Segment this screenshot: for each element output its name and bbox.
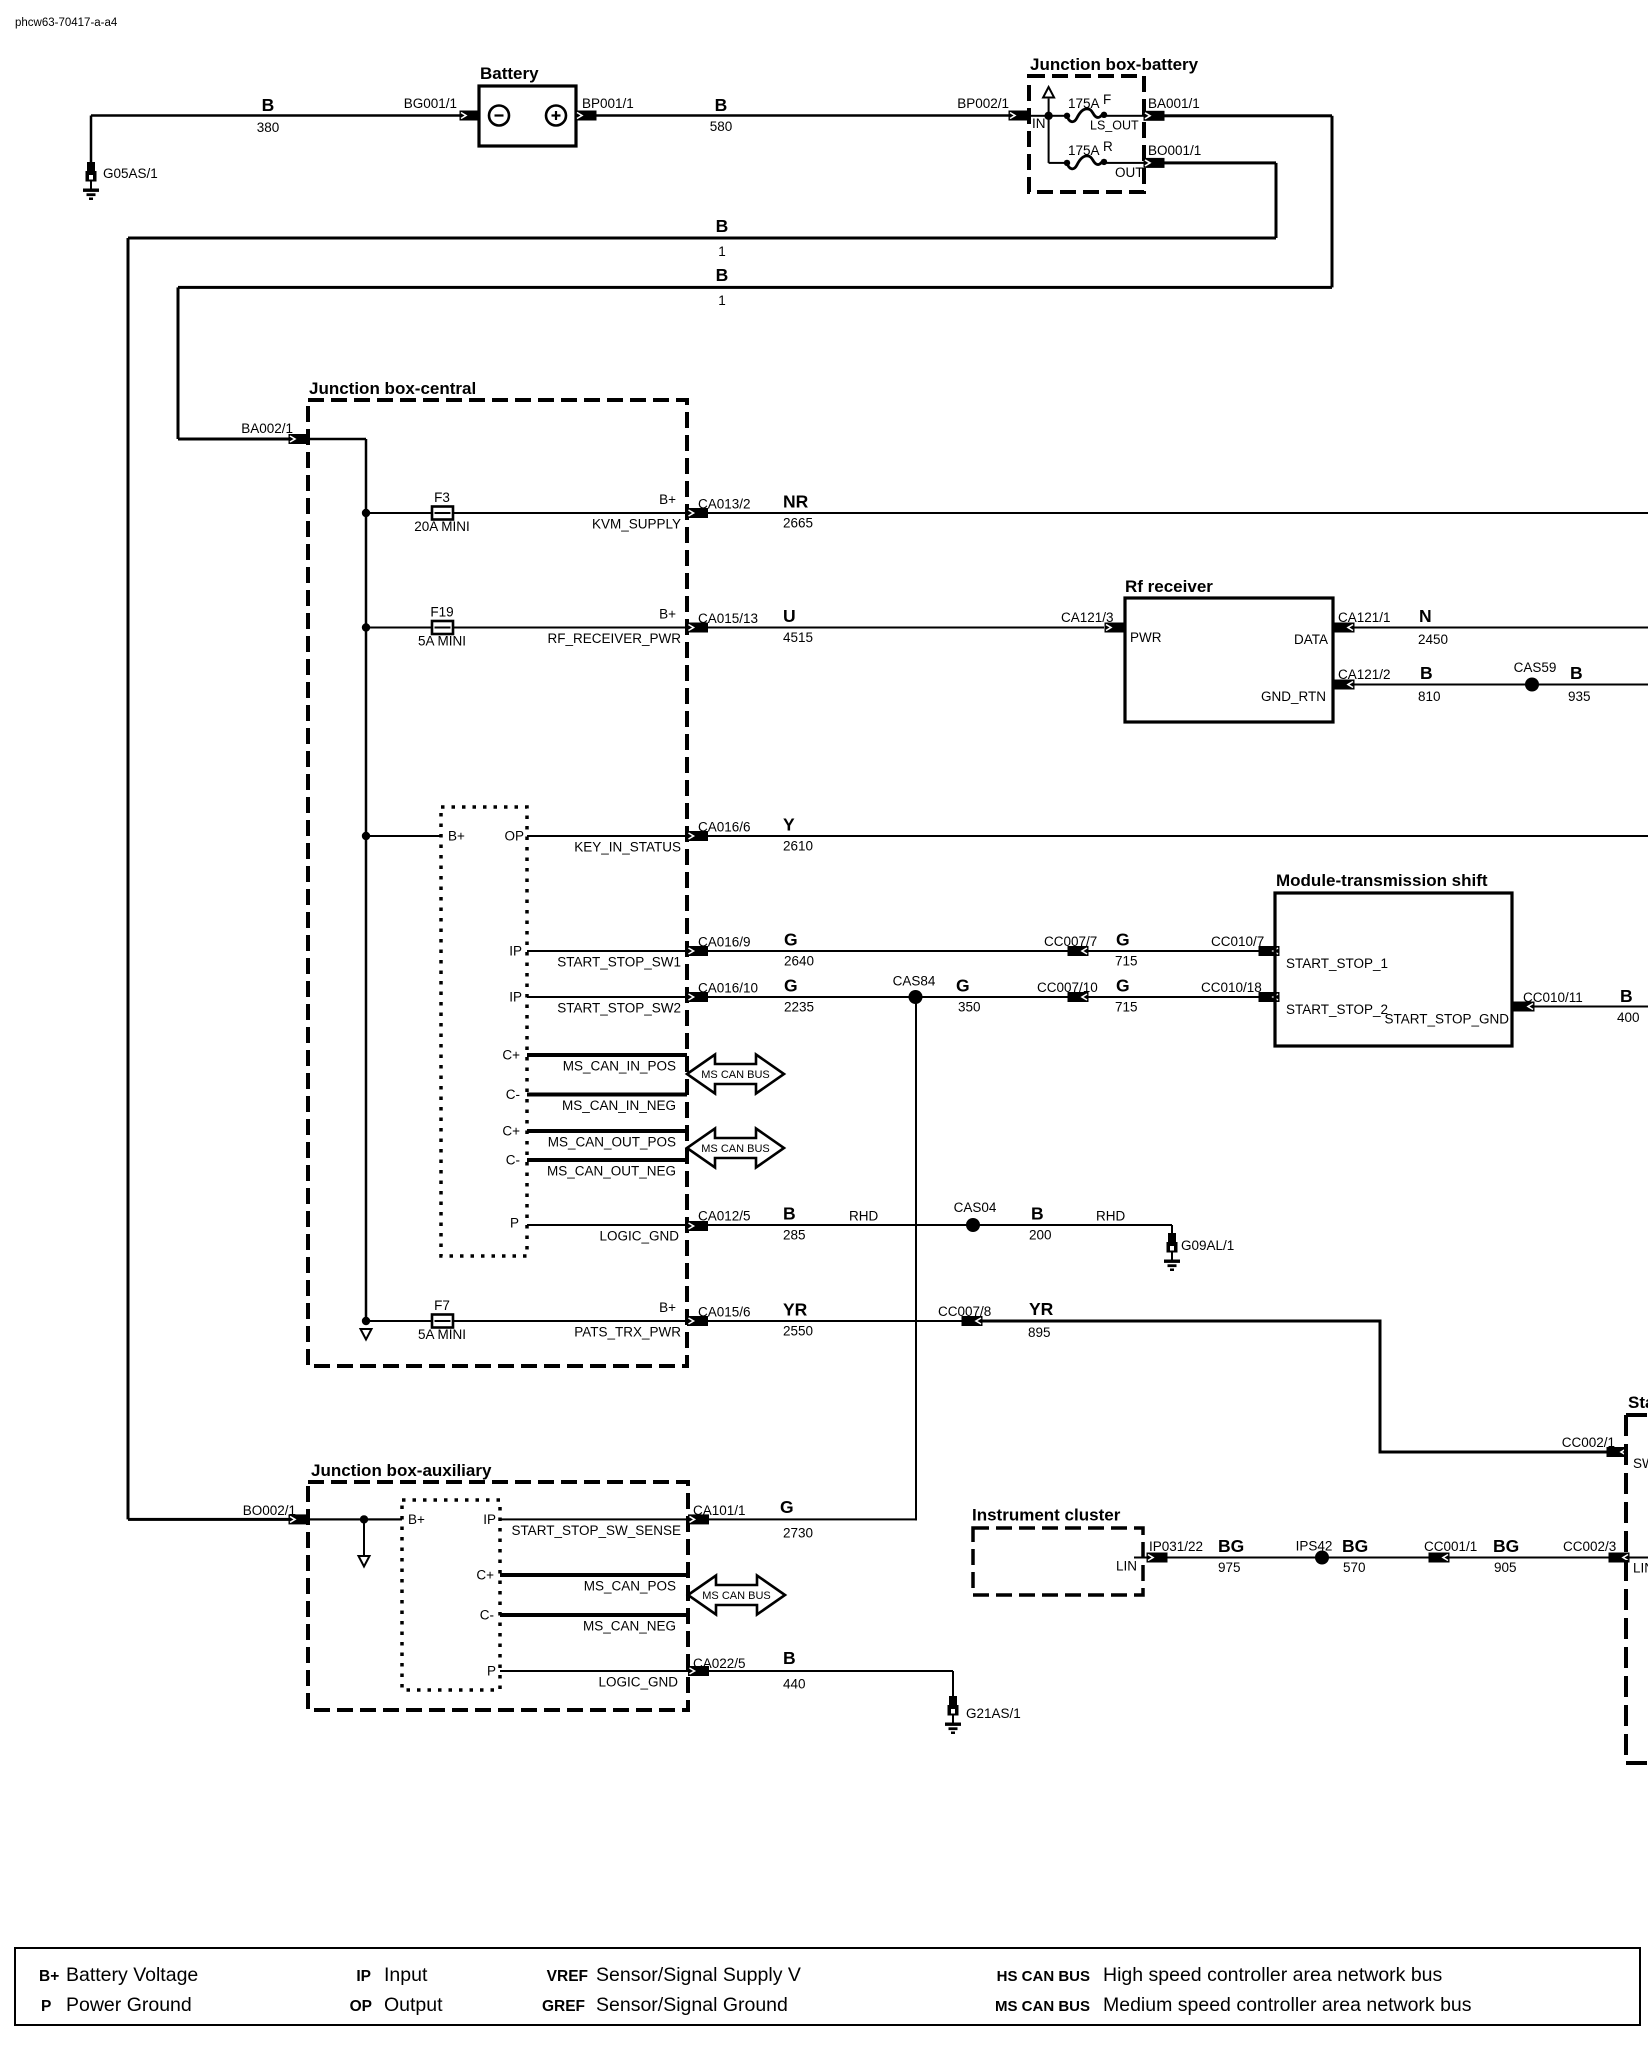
svg-text:CC007/7: CC007/7 [1044, 934, 1097, 949]
svg-text:START_STOP_2: START_STOP_2 [1286, 1002, 1388, 1017]
svg-text:B: B [1620, 986, 1633, 1006]
svg-text:F: F [1103, 92, 1111, 107]
svg-text:LOGIC_GND: LOGIC_GND [599, 1229, 679, 1244]
svg-text:895: 895 [1028, 1325, 1051, 1340]
svg-text:B: B [716, 265, 729, 285]
svg-text:HS CAN BUS: HS CAN BUS [997, 1968, 1090, 1985]
svg-text:Output: Output [384, 1994, 443, 2016]
svg-text:P: P [510, 1216, 519, 1231]
svg-text:CA016/6: CA016/6 [698, 820, 751, 835]
svg-text:570: 570 [1343, 1560, 1366, 1575]
svg-text:IP: IP [509, 944, 522, 959]
svg-text:B: B [716, 216, 729, 236]
svg-text:G: G [956, 976, 970, 996]
svg-text:Module-transmission shift: Module-transmission shift [1276, 871, 1488, 890]
svg-text:2450: 2450 [1418, 632, 1448, 647]
svg-text:OUT: OUT [1115, 165, 1144, 180]
svg-text:PATS_TRX_PWR: PATS_TRX_PWR [574, 1325, 681, 1340]
svg-text:IP: IP [483, 1512, 496, 1527]
svg-text:2730: 2730 [783, 1526, 813, 1541]
svg-text:CC010/18: CC010/18 [1201, 980, 1262, 995]
svg-text:810: 810 [1418, 689, 1441, 704]
svg-text:CA022/5: CA022/5 [693, 1656, 746, 1671]
svg-text:935: 935 [1568, 689, 1591, 704]
svg-text:B+: B+ [39, 1968, 59, 1985]
svg-text:715: 715 [1115, 954, 1138, 969]
svg-text:RF_RECEIVER_PWR: RF_RECEIVER_PWR [547, 631, 681, 646]
svg-text:MS_CAN_IN_NEG: MS_CAN_IN_NEG [562, 1098, 676, 1113]
svg-text:2610: 2610 [783, 839, 813, 854]
svg-text:400: 400 [1617, 1010, 1640, 1025]
svg-text:F19: F19 [430, 605, 453, 620]
svg-text:CC010/7: CC010/7 [1211, 934, 1264, 949]
svg-text:CC007/8: CC007/8 [938, 1304, 991, 1319]
svg-text:YR: YR [1029, 1299, 1054, 1319]
svg-text:4515: 4515 [783, 630, 813, 645]
svg-text:G: G [784, 976, 798, 996]
svg-text:Medium speed controller area n: Medium speed controller area network bus [1103, 1994, 1472, 2016]
svg-text:Rf receiver: Rf receiver [1125, 577, 1213, 596]
svg-text:CA013/2: CA013/2 [698, 497, 751, 512]
svg-text:580: 580 [710, 119, 733, 134]
svg-text:Battery Voltage: Battery Voltage [66, 1964, 198, 1986]
svg-text:LIN: LIN [1633, 1561, 1648, 1576]
svg-text:BO002/1: BO002/1 [243, 1503, 296, 1518]
svg-text:CAS04: CAS04 [954, 1200, 997, 1215]
svg-text:G: G [1116, 976, 1130, 996]
svg-text:5A MINI: 5A MINI [418, 1327, 466, 1342]
svg-text:B: B [262, 95, 275, 115]
svg-text:CA016/10: CA016/10 [698, 981, 758, 996]
svg-text:C+: C+ [476, 1568, 494, 1583]
svg-text:175A: 175A [1068, 143, 1100, 158]
svg-text:BO001/1: BO001/1 [1148, 143, 1201, 158]
svg-text:CA101/1: CA101/1 [693, 1503, 746, 1518]
svg-text:KEY_IN_STATUS: KEY_IN_STATUS [574, 840, 681, 855]
svg-text:905: 905 [1494, 1560, 1517, 1575]
svg-text:175A: 175A [1068, 96, 1100, 111]
svg-text:CAS84: CAS84 [893, 974, 936, 989]
svg-text:START_STOP_SW_SENSE: START_STOP_SW_SENSE [511, 1523, 681, 1538]
svg-text:440: 440 [783, 1677, 806, 1692]
svg-text:N: N [1419, 606, 1432, 626]
svg-text:350: 350 [958, 1000, 981, 1015]
svg-text:Sensor/Signal Supply V: Sensor/Signal Supply V [596, 1964, 801, 1986]
svg-text:START_STOP_1: START_STOP_1 [1286, 956, 1388, 971]
svg-text:B+: B+ [659, 1300, 676, 1315]
svg-text:MS_CAN_OUT_NEG: MS_CAN_OUT_NEG [547, 1164, 676, 1179]
svg-text:B: B [1031, 1204, 1044, 1224]
svg-text:2235: 2235 [784, 1000, 814, 1015]
svg-text:5A MINI: 5A MINI [418, 634, 466, 649]
svg-text:G21AS/1: G21AS/1 [966, 1706, 1021, 1721]
svg-text:NR: NR [783, 492, 809, 512]
svg-text:C-: C- [506, 1087, 520, 1102]
svg-text:CA121/1: CA121/1 [1338, 610, 1391, 625]
svg-text:P: P [487, 1664, 496, 1679]
svg-text:CC010/11: CC010/11 [1523, 990, 1583, 1005]
svg-text:R: R [1103, 139, 1113, 154]
svg-text:B: B [783, 1204, 796, 1224]
svg-text:BP001/1: BP001/1 [582, 96, 634, 111]
svg-text:F7: F7 [434, 1298, 450, 1313]
svg-text:RHD: RHD [1096, 1209, 1125, 1224]
svg-text:BG: BG [1342, 1536, 1368, 1556]
svg-text:CA015/6: CA015/6 [698, 1305, 751, 1320]
svg-text:DATA: DATA [1294, 632, 1328, 647]
svg-text:Y: Y [783, 815, 795, 835]
svg-text:MS CAN BUS: MS CAN BUS [701, 1069, 769, 1081]
svg-text:1: 1 [718, 244, 726, 259]
svg-text:KVM_SUPPLY: KVM_SUPPLY [592, 517, 681, 532]
svg-text:2550: 2550 [783, 1324, 813, 1339]
svg-text:IP: IP [356, 1968, 371, 1985]
svg-text:2665: 2665 [783, 516, 813, 531]
svg-text:IP: IP [509, 990, 522, 1005]
svg-text:Instrument cluster: Instrument cluster [972, 1506, 1121, 1525]
svg-text:B+: B+ [448, 829, 465, 844]
svg-text:OP: OP [504, 829, 524, 844]
svg-text:SW: SW [1633, 1456, 1648, 1471]
svg-text:MS_CAN_OUT_POS: MS_CAN_OUT_POS [548, 1135, 676, 1150]
svg-text:G05AS/1: G05AS/1 [103, 166, 158, 181]
svg-text:975: 975 [1218, 1560, 1241, 1575]
svg-text:High speed controller area net: High speed controller area network bus [1103, 1964, 1443, 1986]
svg-text:B: B [783, 1648, 796, 1668]
svg-text:BG001/1: BG001/1 [404, 96, 457, 111]
svg-text:200: 200 [1029, 1228, 1052, 1243]
svg-text:IN: IN [1032, 116, 1046, 131]
svg-text:Junction box-auxiliary: Junction box-auxiliary [311, 1461, 492, 1480]
svg-text:BG: BG [1218, 1536, 1244, 1556]
svg-text:B: B [1420, 663, 1433, 683]
svg-text:MS_CAN_NEG: MS_CAN_NEG [583, 1619, 676, 1634]
svg-text:CA012/5: CA012/5 [698, 1209, 751, 1224]
svg-text:G: G [1116, 930, 1130, 950]
svg-text:YR: YR [783, 1300, 808, 1320]
svg-text:BP002/1: BP002/1 [957, 96, 1009, 111]
svg-text:CC007/10: CC007/10 [1037, 980, 1098, 995]
svg-text:MS_CAN_IN_POS: MS_CAN_IN_POS [563, 1059, 676, 1074]
svg-text:Sensor/Signal Ground: Sensor/Signal Ground [596, 1994, 788, 2016]
svg-text:715: 715 [1115, 1000, 1138, 1015]
svg-text:Input: Input [384, 1964, 428, 1986]
svg-text:CA016/9: CA016/9 [698, 935, 751, 950]
svg-text:CAS59: CAS59 [1514, 660, 1557, 675]
svg-text:Junction box-battery: Junction box-battery [1030, 55, 1199, 74]
svg-text:U: U [783, 606, 796, 626]
svg-text:B+: B+ [659, 607, 676, 622]
svg-text:G09AL/1: G09AL/1 [1181, 1238, 1234, 1253]
svg-text:MS CAN BUS: MS CAN BUS [701, 1143, 769, 1155]
svg-text:START_STOP_SW1: START_STOP_SW1 [557, 955, 681, 970]
svg-text:G: G [780, 1497, 794, 1517]
svg-text:LIN: LIN [1116, 1559, 1137, 1574]
svg-text:20A MINI: 20A MINI [414, 519, 470, 534]
svg-text:IPS42: IPS42 [1296, 1539, 1333, 1554]
svg-text:Battery: Battery [480, 64, 539, 83]
svg-text:285: 285 [783, 1228, 806, 1243]
svg-text:CA015/13: CA015/13 [698, 611, 758, 626]
svg-text:RHD: RHD [849, 1209, 878, 1224]
svg-text:LOGIC_GND: LOGIC_GND [598, 1675, 678, 1690]
svg-text:G: G [784, 930, 798, 950]
svg-text:VREF: VREF [547, 1968, 588, 1985]
svg-text:B+: B+ [408, 1512, 425, 1527]
svg-text:2640: 2640 [784, 954, 814, 969]
svg-text:F3: F3 [434, 490, 450, 505]
svg-text:Start/stop switch: Start/stop switch [1628, 1393, 1648, 1412]
svg-text:PWR: PWR [1130, 630, 1162, 645]
svg-text:CC002/3: CC002/3 [1563, 1539, 1616, 1554]
svg-text:CC002/1: CC002/1 [1562, 1435, 1615, 1450]
svg-text:OP: OP [350, 1998, 372, 2015]
svg-text:LS_OUT: LS_OUT [1090, 119, 1139, 133]
svg-text:START_STOP_GND: START_STOP_GND [1384, 1012, 1509, 1027]
svg-text:C+: C+ [502, 1124, 520, 1139]
svg-text:BA001/1: BA001/1 [1148, 96, 1200, 111]
svg-text:CC001/1: CC001/1 [1424, 1539, 1477, 1554]
svg-text:MS_CAN_POS: MS_CAN_POS [584, 1579, 676, 1594]
svg-text:380: 380 [257, 120, 280, 135]
svg-text:phcw63-70417-a-a4: phcw63-70417-a-a4 [15, 17, 118, 29]
svg-text:BA002/1: BA002/1 [241, 421, 293, 436]
svg-text:P: P [41, 1998, 51, 2015]
svg-text:GREF: GREF [542, 1998, 585, 2015]
svg-text:MS CAN BUS: MS CAN BUS [702, 1590, 770, 1602]
svg-text:GND_RTN: GND_RTN [1261, 689, 1326, 704]
svg-text:Junction box-central: Junction box-central [309, 379, 476, 398]
svg-text:C-: C- [506, 1153, 520, 1168]
svg-text:B: B [1570, 663, 1583, 683]
svg-text:B: B [715, 95, 728, 115]
svg-text:B+: B+ [659, 492, 676, 507]
svg-text:1: 1 [718, 293, 726, 308]
svg-text:START_STOP_SW2: START_STOP_SW2 [557, 1001, 681, 1016]
svg-text:Power Ground: Power Ground [66, 1994, 192, 2016]
svg-text:CA121/2: CA121/2 [1338, 667, 1391, 682]
svg-text:IP031/22: IP031/22 [1149, 1539, 1203, 1554]
svg-text:BG: BG [1493, 1536, 1519, 1556]
svg-text:C+: C+ [502, 1048, 520, 1063]
svg-text:C-: C- [480, 1608, 494, 1623]
svg-text:MS CAN BUS: MS CAN BUS [995, 1998, 1090, 2015]
